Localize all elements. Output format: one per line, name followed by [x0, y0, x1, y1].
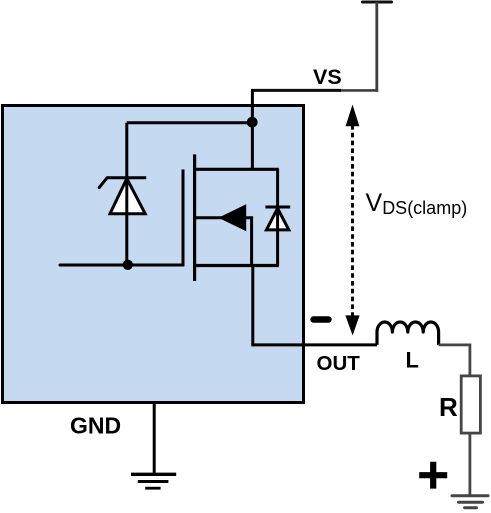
body diode D1 triangle [266, 208, 288, 230]
transistor Q1 body line [195, 218, 252, 266]
svg-text:GND: GND [70, 413, 121, 439]
inductor L1 [377, 322, 439, 345]
dashed measurement line VDS(clamp) [351, 125, 354, 317]
junction dot (gate node) [123, 260, 133, 270]
IC body U1 (driver block) [3, 106, 304, 403]
arrowhead up (VDS measure top) [346, 105, 360, 127]
zener diode DZ cathode tail [99, 178, 107, 188]
transistor Q1 channel bar [193, 154, 196, 281]
junction dot (drain node) [247, 117, 258, 128]
svg-text:OUT: OUT [317, 352, 361, 375]
transistor Q1 source stub [195, 264, 279, 267]
resistor R1 [461, 376, 480, 433]
wire body diode vertical (drain stub to source stub) [276, 169, 279, 265]
wire drain node to zener (horizontal) [127, 121, 252, 124]
svg-text:VS: VS [313, 65, 342, 89]
body diode D1 cathode bar [265, 206, 290, 209]
transistor Q1 drain stub [195, 168, 279, 171]
wire VS horizontal gray segment [339, 89, 378, 92]
wire gate horizontal [60, 264, 183, 267]
wire zener vertical (through zener, node to gate wire) [125, 123, 128, 265]
plus sign (VDS reference) [419, 462, 447, 489]
wire GND (box to ground) [153, 403, 156, 475]
wire source vertical (source stub down to OUT) [251, 266, 254, 345]
svg-text:L: L [406, 348, 419, 373]
wire OUT horizontal (to inductor) [251, 343, 377, 346]
transistor Q1 body arrow [218, 204, 246, 231]
transistor Q1 gate bar [182, 170, 185, 267]
zener diode DZ triangle [110, 179, 145, 214]
svg-text:R: R [439, 392, 458, 422]
supply rail bar (top) [363, 1, 392, 4]
zener diode DZ cathode bar [107, 176, 146, 179]
svg-text:VDS(clamp): VDS(clamp) [366, 189, 468, 218]
minus sign (VDS reference) [314, 316, 329, 322]
wire resistor to ground [468, 433, 471, 495]
wire inductor to resistor [439, 345, 470, 375]
wire VS horizontal black segment (pin VS to corner) [251, 89, 341, 92]
wire VS vertical (rail to corner) [375, 2, 378, 92]
ground symbol (left, GND pin) [131, 474, 176, 488]
wire drain vertical (VS pin down to drain stub) [251, 90, 254, 169]
arrowhead down (VDS measure bottom) [345, 315, 359, 335]
ground symbol (right, load return) [452, 496, 488, 508]
